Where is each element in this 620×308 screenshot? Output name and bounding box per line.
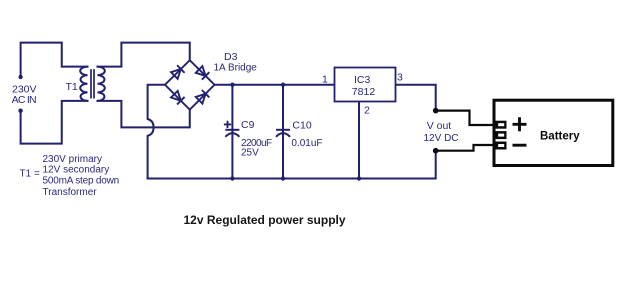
svg-text:0.01uF: 0.01uF [291, 138, 322, 149]
node pin2 ground [357, 176, 361, 180]
node C10 bottom [281, 176, 285, 180]
transformer T1 core [91, 70, 94, 98]
svg-text:Transformer: Transformer [43, 187, 98, 198]
wire bridge left vertex to ground rail with hop [148, 85, 165, 179]
svg-text:T1 =: T1 = [20, 169, 40, 180]
ground rail [148, 151, 436, 179]
battery plus terminal mark [513, 117, 527, 131]
capacitor C9 plates [225, 130, 239, 137]
svg-text:1A Bridge: 1A Bridge [214, 63, 258, 74]
transformer T1 secondary winding [98, 67, 105, 101]
diode bridge TL (cathode to top vertex) [171, 65, 185, 79]
regulator IC3 box [335, 68, 396, 102]
battery connector block 2 [494, 131, 507, 139]
node C9 bottom [230, 176, 234, 180]
wire secondary top to bridge top [98, 43, 190, 67]
svg-text:12V DC: 12V DC [424, 133, 459, 144]
svg-text:2: 2 [364, 105, 370, 117]
svg-text:25V: 25V [241, 148, 259, 159]
svg-text:3: 3 [397, 72, 403, 84]
battery wire negative (black) [436, 145, 494, 151]
battery box [494, 100, 613, 165]
node C9 top [230, 83, 234, 87]
svg-text:1: 1 [322, 73, 328, 85]
wire IC3 pin3 to Vout node [396, 85, 436, 111]
node C10 top [281, 83, 285, 87]
diode bridge BR (cathode to right vertex) [196, 90, 210, 104]
capacitor C10 vertical wire [282, 85, 284, 179]
svg-text:230V primary: 230V primary [43, 154, 102, 165]
svg-text:7812: 7812 [352, 86, 376, 98]
svg-text:IC3: IC3 [354, 74, 371, 86]
svg-text:D3: D3 [224, 51, 238, 63]
battery minus terminal mark [513, 144, 527, 147]
battery connector block 3 [494, 142, 507, 150]
svg-text:T1: T1 [66, 81, 78, 93]
svg-text:C10: C10 [292, 120, 311, 132]
wire secondary bottom to bridge bottom [98, 101, 190, 128]
wire positive rail bridge to IC3 pin1 [215, 84, 335, 86]
svg-text:AC IN: AC IN [12, 94, 36, 106]
bridge D3 diamond [165, 60, 215, 109]
node AC terminal top [18, 75, 22, 79]
svg-text:12V secondary: 12V secondary [43, 165, 110, 176]
svg-text:V out: V out [427, 120, 452, 132]
battery wire positive (black) [436, 111, 494, 125]
transformer T1 primary winding [80, 67, 87, 101]
node AC terminal bottom [18, 109, 22, 113]
wire AC input top to primary [21, 43, 88, 77]
node Vout positive [433, 108, 439, 114]
battery connector block 1 [494, 121, 507, 129]
diode bridge BL (cathode to bottom vertex) [171, 91, 185, 105]
svg-text:500mA step down: 500mA step down [43, 175, 120, 186]
capacitor C9 vertical wire [231, 85, 233, 179]
svg-text:C9: C9 [241, 119, 255, 131]
wire primary bottom to AC input [21, 101, 88, 144]
svg-text:Battery: Battery [540, 131, 580, 143]
node Vout negative [433, 148, 439, 154]
wire IC3 pin2 to ground rail [358, 102, 360, 179]
capacitor C9 plus sign [224, 121, 231, 128]
diode bridge TR (cathode to right vertex) [196, 66, 210, 80]
svg-text:12v Regulated power supply: 12v Regulated power supply [184, 213, 346, 227]
capacitor C10 plates [276, 130, 290, 137]
